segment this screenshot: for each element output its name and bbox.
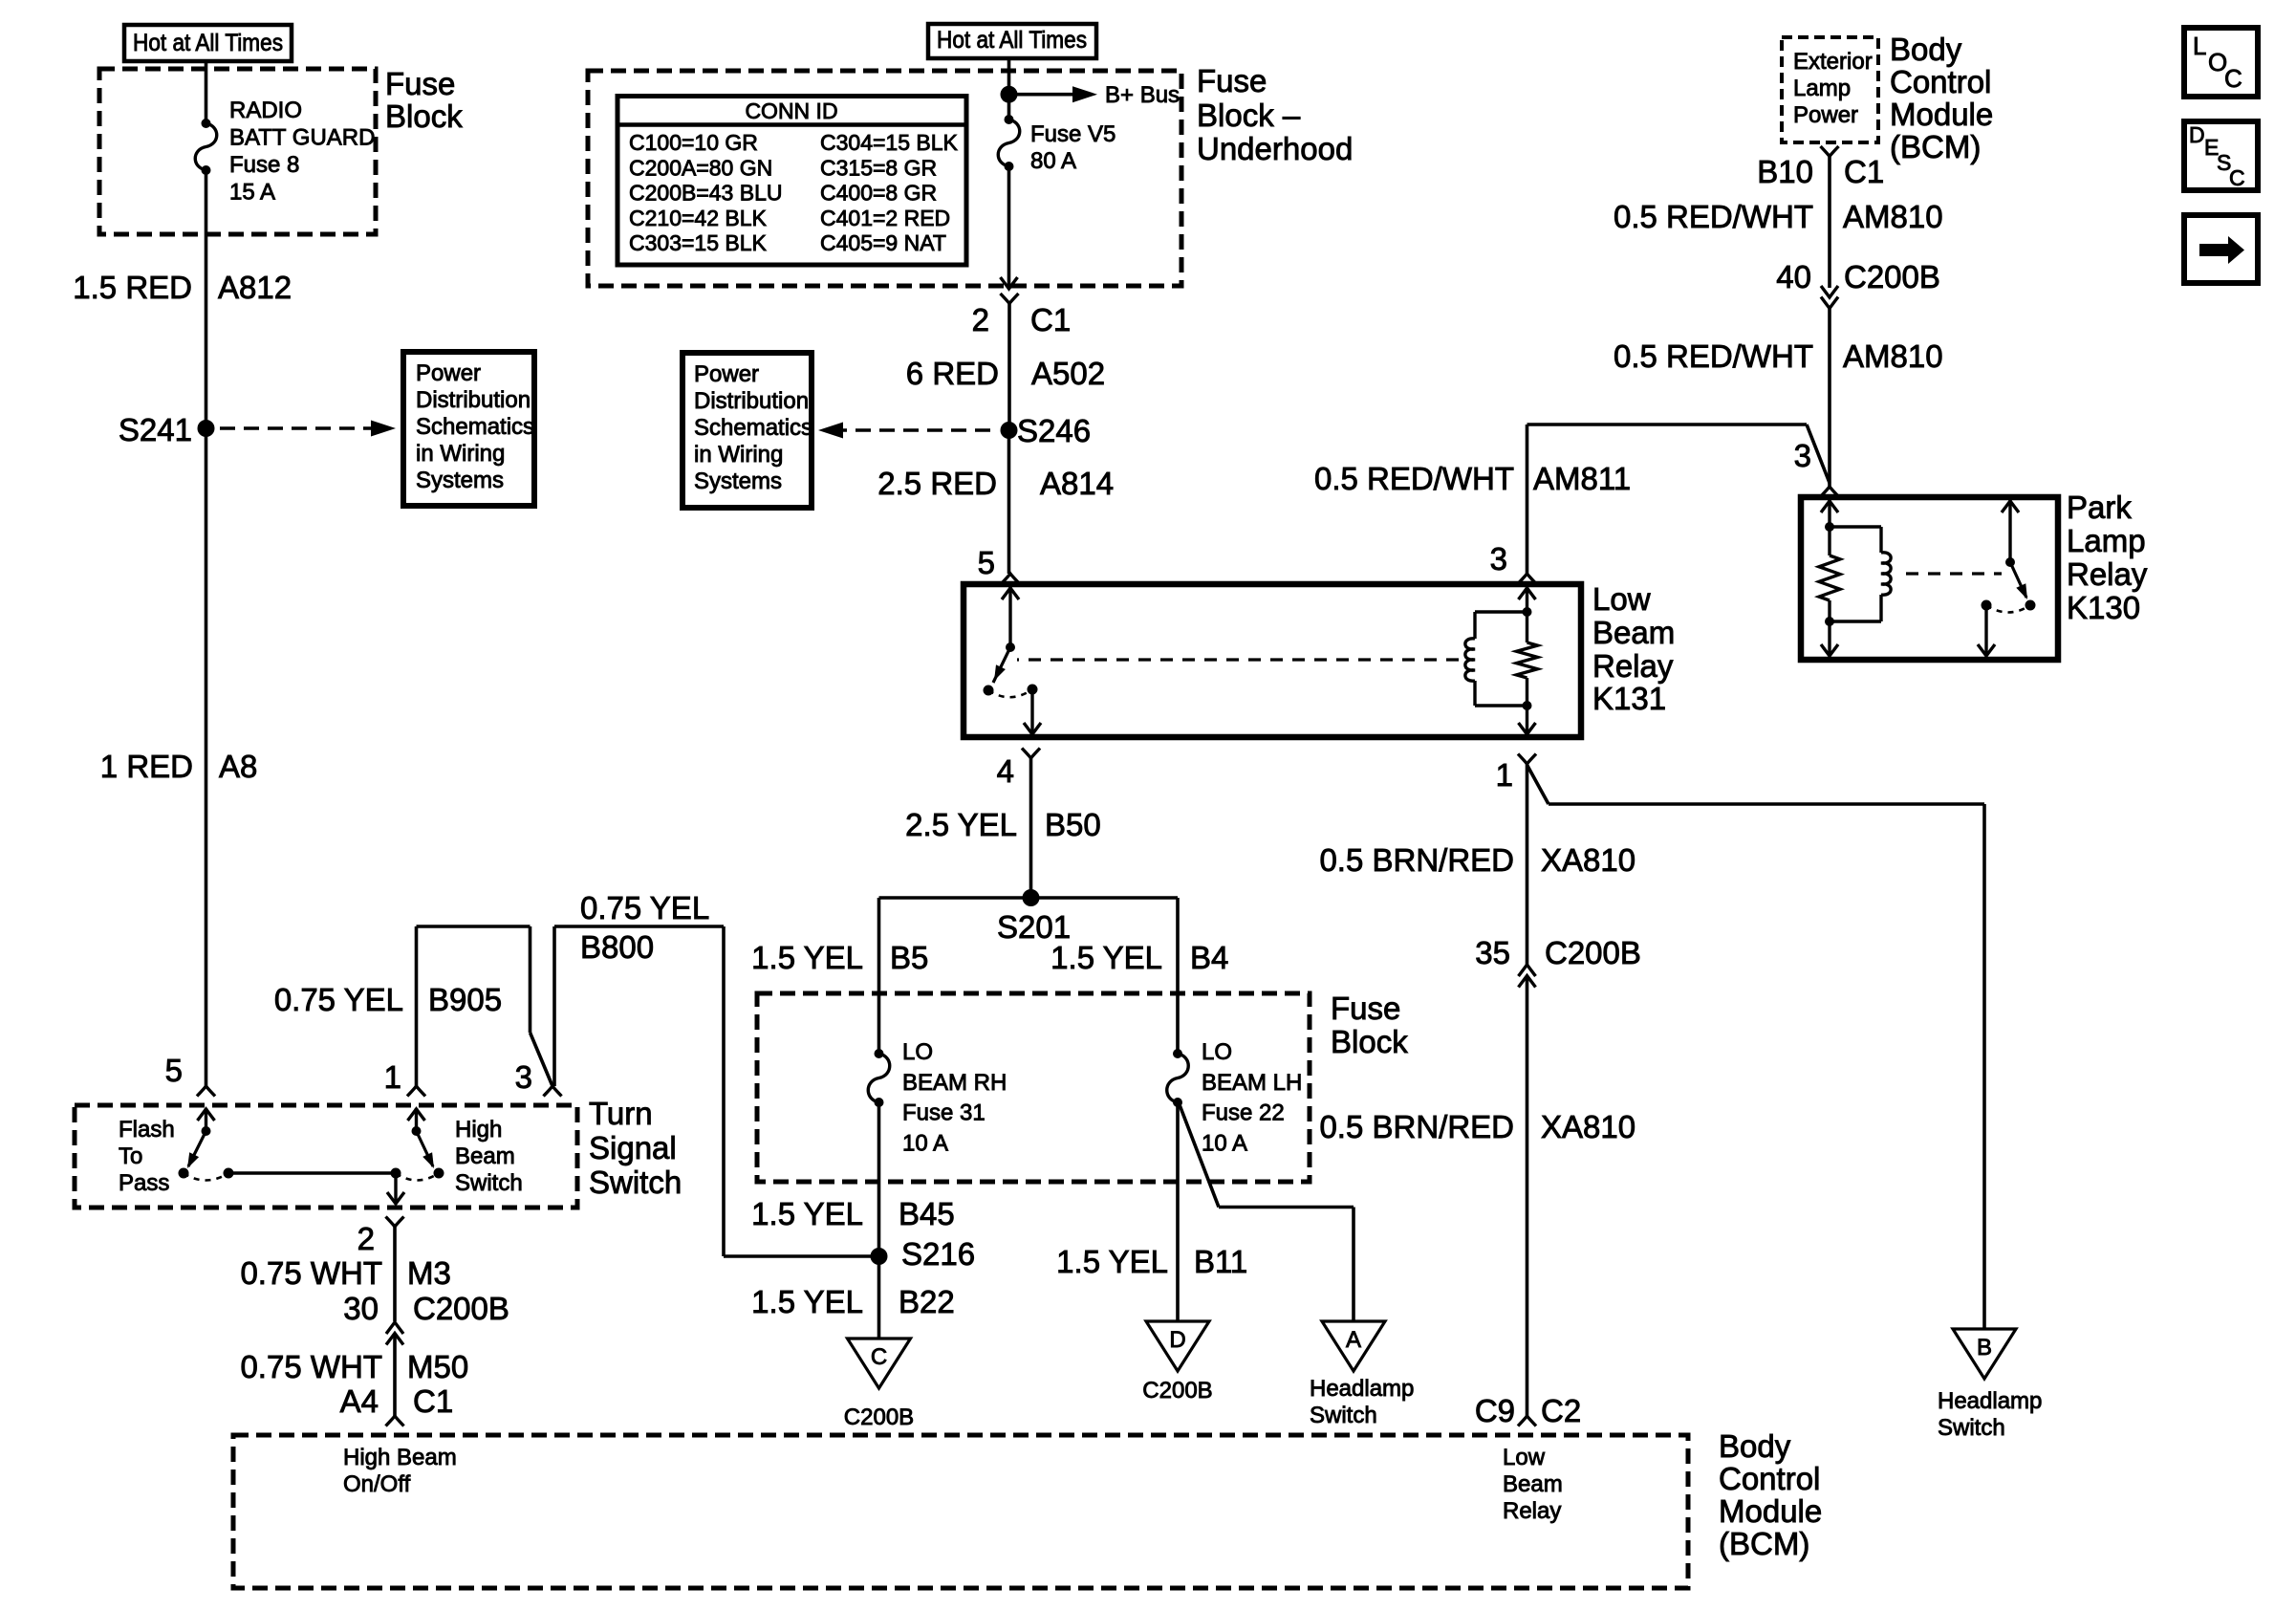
connector D to C200B bbox=[1146, 1321, 1209, 1371]
svg-text:in Wiring: in Wiring bbox=[416, 441, 505, 467]
dashed reference arrow S241 bbox=[220, 426, 375, 430]
svg-text:5: 5 bbox=[165, 1053, 183, 1088]
fuse block 1 dashed box bbox=[99, 69, 376, 234]
svg-text:3: 3 bbox=[515, 1059, 532, 1095]
TSS FTP arm bbox=[188, 1131, 206, 1166]
TSS link wire bbox=[228, 1171, 396, 1174]
svg-text:80 A: 80 A bbox=[1030, 148, 1076, 174]
svg-text:Headlamp: Headlamp bbox=[1938, 1388, 2042, 1414]
dashed reference arrow S246 bbox=[832, 428, 996, 432]
K130 switch pivot bbox=[2005, 557, 2015, 567]
exterior lamp power dashed box bbox=[1782, 37, 1878, 142]
wire AM810 lower bbox=[1828, 309, 1831, 488]
svg-text:C401=2 RED: C401=2 RED bbox=[820, 206, 950, 230]
BCM dashed box bbox=[233, 1435, 1688, 1588]
svg-text:S216: S216 bbox=[901, 1236, 975, 1272]
K131 resistor bbox=[1526, 612, 1528, 642]
svg-text:M3: M3 bbox=[407, 1255, 451, 1291]
svg-text:Relay: Relay bbox=[2067, 556, 2148, 592]
svg-text:Control: Control bbox=[1719, 1461, 1820, 1496]
K130 resistor bottom node bbox=[1825, 617, 1834, 626]
svg-text:Signal: Signal bbox=[589, 1130, 677, 1165]
svg-text:Systems: Systems bbox=[694, 468, 782, 494]
svg-text:C200A=80 GN: C200A=80 GN bbox=[629, 155, 772, 180]
wire to headlamp switch B bbox=[1527, 765, 1549, 804]
svg-text:Low: Low bbox=[1503, 1445, 1546, 1470]
svg-text:0.5 RED/WHT: 0.5 RED/WHT bbox=[1614, 338, 1813, 374]
connector K131 pin 3 bbox=[1518, 574, 1536, 584]
connector BCM B10 C1 bbox=[1821, 146, 1839, 157]
fuse LO BEAM RH bbox=[875, 1049, 884, 1058]
wire fuse 22 to headlamp switch A bbox=[1179, 1102, 1219, 1208]
svg-text:Switch: Switch bbox=[1310, 1403, 1377, 1428]
svg-text:On/Off: On/Off bbox=[343, 1471, 411, 1497]
svg-text:2: 2 bbox=[972, 302, 989, 337]
connector TSS pin 5 bbox=[197, 1086, 215, 1097]
svg-text:Distribution: Distribution bbox=[416, 387, 531, 413]
connector K130 pin 3 bbox=[1821, 487, 1839, 497]
K131 coil top node bbox=[1523, 607, 1532, 617]
TSS FTP pivot bbox=[202, 1126, 211, 1136]
svg-text:K131: K131 bbox=[1592, 681, 1666, 716]
wire A502 bbox=[1007, 304, 1011, 431]
svg-text:L: L bbox=[2193, 32, 2206, 60]
svg-text:C210=42 BLK: C210=42 BLK bbox=[629, 206, 768, 230]
svg-text:(BCM): (BCM) bbox=[1719, 1526, 1809, 1561]
TSS HBS arc bbox=[396, 1173, 439, 1181]
svg-text:Schematics: Schematics bbox=[416, 414, 534, 440]
svg-text:Body: Body bbox=[1890, 32, 1962, 67]
svg-text:0.5 RED/WHT: 0.5 RED/WHT bbox=[1314, 461, 1514, 496]
TSS high beam feed arrow bbox=[415, 1108, 418, 1131]
svg-text:B50: B50 bbox=[1045, 807, 1101, 842]
svg-text:0.75 YEL: 0.75 YEL bbox=[580, 890, 709, 925]
svg-text:D: D bbox=[1169, 1327, 1185, 1353]
svg-text:B11: B11 bbox=[1194, 1244, 1247, 1279]
svg-text:Fuse: Fuse bbox=[1331, 991, 1400, 1026]
svg-text:1.5 YEL: 1.5 YEL bbox=[751, 1284, 863, 1319]
fuse block underhood dashed box bbox=[588, 71, 1181, 286]
svg-text:1: 1 bbox=[384, 1059, 401, 1095]
wire hot feed to fuse block (x=215) bbox=[205, 61, 208, 123]
LOC reference box bbox=[2184, 28, 2258, 97]
hot at all times box 2 bbox=[928, 24, 1096, 58]
park lamp relay K130 box bbox=[1801, 497, 2058, 660]
wire AM810 upper bbox=[1828, 157, 1831, 289]
K131 coil dashed link bbox=[1017, 658, 1459, 661]
svg-text:Power: Power bbox=[694, 361, 759, 387]
connector BCM C9 bbox=[1518, 1416, 1536, 1426]
svg-text:1.5 YEL: 1.5 YEL bbox=[751, 940, 863, 975]
svg-text:B45: B45 bbox=[899, 1196, 955, 1231]
svg-text:Park: Park bbox=[2067, 490, 2132, 525]
svg-text:C304=15 BLK: C304=15 BLK bbox=[820, 130, 959, 155]
svg-text:Switch: Switch bbox=[589, 1165, 682, 1200]
svg-text:1 RED: 1 RED bbox=[100, 749, 193, 784]
fuse V5 80A bbox=[1005, 115, 1014, 124]
svg-text:1.5 YEL: 1.5 YEL bbox=[1056, 1244, 1168, 1279]
svg-text:6 RED: 6 RED bbox=[906, 356, 999, 391]
svg-text:Systems: Systems bbox=[416, 468, 504, 493]
K131 coil bottom node bbox=[1523, 701, 1532, 710]
svg-text:Lamp: Lamp bbox=[2067, 523, 2146, 558]
wire branch AM811 bbox=[1527, 423, 1808, 426]
svg-text:Block: Block bbox=[1331, 1024, 1408, 1059]
svg-text:C: C bbox=[2224, 64, 2242, 93]
svg-text:C200B: C200B bbox=[413, 1291, 509, 1326]
svg-text:Underhood: Underhood bbox=[1197, 131, 1353, 166]
svg-text:Block –: Block – bbox=[1197, 98, 1301, 133]
wire A8 segment bbox=[205, 428, 208, 1086]
svg-text:C200B: C200B bbox=[1545, 935, 1641, 970]
svg-text:B4: B4 bbox=[1190, 940, 1228, 975]
K131 switch arm bbox=[993, 647, 1010, 683]
low beam relay K131 box bbox=[964, 584, 1581, 737]
svg-text:35: 35 bbox=[1475, 935, 1510, 970]
connector K131 pin 5 bbox=[1002, 574, 1020, 584]
K130 resistor bbox=[1828, 527, 1830, 555]
svg-text:2.5 YEL: 2.5 YEL bbox=[905, 807, 1017, 842]
splice S241 bbox=[198, 420, 215, 437]
K131 switch pivot bbox=[1006, 642, 1015, 652]
svg-text:XA810: XA810 bbox=[1541, 842, 1635, 878]
wire B50 bbox=[1029, 758, 1033, 898]
svg-text:Exterior: Exterior bbox=[1793, 49, 1873, 75]
svg-text:C315=8 GR: C315=8 GR bbox=[820, 155, 937, 180]
forward arrow box bbox=[2184, 215, 2258, 283]
svg-text:Relay: Relay bbox=[1503, 1498, 1561, 1524]
svg-text:B5: B5 bbox=[890, 940, 928, 975]
svg-text:C: C bbox=[2229, 165, 2245, 190]
wire B22 bbox=[877, 1256, 881, 1339]
svg-text:C200B: C200B bbox=[1844, 259, 1940, 294]
K130 coil dashed link bbox=[1906, 572, 2002, 575]
svg-text:C1: C1 bbox=[413, 1383, 453, 1419]
K131 pin4 internal arrow bbox=[1030, 689, 1033, 734]
svg-text:0.75 WHT: 0.75 WHT bbox=[240, 1349, 382, 1384]
svg-text:Lamp: Lamp bbox=[1793, 76, 1851, 101]
K131 pin5 internal arrow bbox=[1008, 587, 1011, 647]
svg-text:3: 3 bbox=[1794, 438, 1811, 473]
connector C1 pin 2 bbox=[1001, 294, 1019, 304]
wire B905 loop bbox=[415, 926, 419, 1086]
wire B5 branch bbox=[877, 898, 881, 1054]
svg-text:Pass: Pass bbox=[119, 1170, 169, 1196]
svg-text:BATT GUARD: BATT GUARD bbox=[229, 125, 375, 151]
svg-text:Schematics: Schematics bbox=[694, 415, 812, 441]
svg-text:B800: B800 bbox=[580, 929, 654, 965]
svg-text:Distribution: Distribution bbox=[694, 388, 809, 414]
svg-text:1.5 RED: 1.5 RED bbox=[73, 270, 192, 305]
svg-text:C: C bbox=[871, 1344, 887, 1370]
svg-text:Beam: Beam bbox=[1592, 615, 1675, 650]
svg-text:4: 4 bbox=[997, 753, 1014, 789]
svg-text:Flash: Flash bbox=[119, 1117, 175, 1143]
svg-text:B: B bbox=[1977, 1335, 1992, 1361]
K131 switch contact bbox=[1028, 685, 1038, 695]
K131 switch arc bbox=[988, 689, 1032, 697]
svg-text:XA810: XA810 bbox=[1541, 1109, 1635, 1144]
svg-text:C303=15 BLK: C303=15 BLK bbox=[629, 230, 768, 255]
svg-text:To: To bbox=[119, 1143, 142, 1169]
svg-text:Fuse 22: Fuse 22 bbox=[1202, 1100, 1285, 1126]
svg-text:B905: B905 bbox=[428, 982, 502, 1017]
splice S201 bbox=[1023, 889, 1040, 906]
hot at all times box 1 bbox=[124, 25, 292, 61]
svg-text:LO: LO bbox=[902, 1039, 933, 1065]
svg-text:A814: A814 bbox=[1040, 466, 1114, 501]
wire A812 segment bbox=[205, 170, 208, 428]
power distribution schematics box 2 bbox=[682, 353, 812, 508]
wire A814 bbox=[1007, 430, 1011, 574]
wire XA810 lower bbox=[1526, 976, 1529, 1417]
connector C to C200B bbox=[848, 1339, 911, 1388]
K130 switch arc bbox=[1986, 605, 2030, 613]
DESC reference box bbox=[2184, 121, 2258, 190]
svg-text:Relay: Relay bbox=[1592, 648, 1674, 684]
connector BCM A4 bbox=[386, 1416, 404, 1426]
wire B45 bbox=[877, 1102, 881, 1256]
TSS HBS arm bbox=[417, 1131, 434, 1166]
svg-text:B22: B22 bbox=[899, 1284, 955, 1319]
svg-text:Headlamp: Headlamp bbox=[1310, 1376, 1414, 1402]
svg-text:Switch: Switch bbox=[455, 1170, 523, 1196]
svg-text:Module: Module bbox=[1719, 1493, 1822, 1529]
svg-text:C200B: C200B bbox=[1142, 1378, 1212, 1404]
K130 internal down arrow bbox=[1828, 621, 1830, 656]
connector TSS pin 1 bbox=[407, 1086, 425, 1097]
wire M50 bbox=[393, 1334, 397, 1417]
svg-text:Body: Body bbox=[1719, 1428, 1791, 1464]
wire B11 bbox=[1176, 1102, 1180, 1321]
svg-text:K130: K130 bbox=[2067, 590, 2140, 625]
splice S246 bbox=[1001, 422, 1018, 439]
wire B800 bbox=[552, 926, 556, 1086]
svg-text:High Beam: High Beam bbox=[343, 1445, 457, 1470]
svg-text:A8: A8 bbox=[219, 749, 257, 784]
svg-text:1.5 YEL: 1.5 YEL bbox=[1051, 940, 1162, 975]
conn id table bbox=[617, 97, 966, 266]
K130 switch contact bbox=[1982, 600, 1992, 611]
wire S201 crossbar bbox=[879, 896, 1179, 900]
TSS HBS common bbox=[391, 1168, 401, 1179]
svg-text:C400=8 GR: C400=8 GR bbox=[820, 181, 937, 206]
connector K131 pin 4 bbox=[1022, 749, 1040, 759]
svg-text:Fuse 8: Fuse 8 bbox=[229, 152, 299, 178]
node B+ branch bbox=[1001, 86, 1018, 103]
connector A headlamp switch bbox=[1322, 1321, 1385, 1371]
svg-text:C1: C1 bbox=[1030, 302, 1071, 337]
svg-text:Block: Block bbox=[385, 98, 463, 134]
TSS output down arrow bbox=[394, 1173, 397, 1204]
wire fuse V5 to box edge bbox=[1007, 166, 1011, 289]
K130 coil bbox=[1830, 525, 1881, 528]
svg-text:B+ Bus: B+ Bus bbox=[1105, 82, 1180, 108]
power distribution schematics box 1 bbox=[403, 352, 534, 506]
svg-text:3: 3 bbox=[1490, 541, 1507, 577]
svg-text:Fuse: Fuse bbox=[1197, 63, 1267, 98]
turn signal switch dashed box bbox=[75, 1105, 577, 1208]
svg-text:C200B=43 BLU: C200B=43 BLU bbox=[629, 181, 782, 206]
svg-text:AM810: AM810 bbox=[1843, 338, 1943, 374]
svg-text:0.75 WHT: 0.75 WHT bbox=[240, 1255, 382, 1291]
svg-text:0.5 RED/WHT: 0.5 RED/WHT bbox=[1614, 199, 1813, 234]
svg-text:Low: Low bbox=[1592, 581, 1651, 617]
TSS HBS pivot bbox=[412, 1126, 422, 1136]
connector TSS pin 2 bbox=[386, 1217, 404, 1228]
svg-text:C200B: C200B bbox=[844, 1404, 914, 1430]
svg-text:A502: A502 bbox=[1031, 356, 1105, 391]
svg-text:15 A: 15 A bbox=[229, 180, 275, 206]
svg-text:Turn: Turn bbox=[589, 1096, 653, 1131]
svg-text:D: D bbox=[2189, 122, 2205, 147]
svg-text:1: 1 bbox=[1496, 757, 1513, 793]
connector K131 pin 1 bbox=[1518, 754, 1536, 765]
svg-text:0.5 BRN/RED: 0.5 BRN/RED bbox=[1319, 1109, 1514, 1144]
wire XA810 upper bbox=[1526, 764, 1529, 965]
svg-text:10 A: 10 A bbox=[902, 1130, 948, 1156]
svg-text:2.5 RED: 2.5 RED bbox=[877, 466, 997, 501]
svg-text:A: A bbox=[1346, 1327, 1361, 1353]
svg-text:(BCM): (BCM) bbox=[1890, 129, 1981, 164]
svg-text:A4: A4 bbox=[340, 1383, 379, 1419]
svg-text:C9: C9 bbox=[1475, 1393, 1515, 1428]
wire hot2 down to B+ node bbox=[1007, 58, 1011, 120]
svg-text:0.75 YEL: 0.75 YEL bbox=[274, 982, 403, 1017]
svg-text:40: 40 bbox=[1776, 259, 1811, 294]
K130 pin2 internal arrow bbox=[1984, 605, 1987, 656]
svg-text:in Wiring: in Wiring bbox=[694, 442, 783, 468]
svg-text:AM810: AM810 bbox=[1843, 199, 1943, 234]
svg-text:S246: S246 bbox=[1017, 413, 1091, 448]
svg-text:5: 5 bbox=[978, 545, 995, 580]
svg-text:Hot at All Times: Hot at All Times bbox=[937, 27, 1087, 54]
svg-text:Fuse 31: Fuse 31 bbox=[902, 1100, 986, 1126]
splice S216 bbox=[871, 1248, 888, 1265]
svg-text:Switch: Switch bbox=[1938, 1415, 2005, 1441]
svg-text:C100=10 GR: C100=10 GR bbox=[629, 130, 758, 155]
svg-text:Beam: Beam bbox=[1503, 1471, 1563, 1497]
svg-text:Fuse: Fuse bbox=[385, 66, 455, 101]
K130 switch arm bbox=[2010, 562, 2026, 598]
wire B4 branch bbox=[1176, 898, 1180, 1054]
svg-text:C1: C1 bbox=[1844, 154, 1884, 189]
svg-text:BEAM RH: BEAM RH bbox=[902, 1070, 1007, 1096]
svg-text:A812: A812 bbox=[218, 270, 292, 305]
fuse block 2 dashed box bbox=[757, 993, 1310, 1182]
fuse LO BEAM LH bbox=[1173, 1049, 1182, 1058]
wire M3 bbox=[393, 1227, 397, 1321]
svg-text:High: High bbox=[455, 1117, 502, 1143]
svg-text:Power: Power bbox=[416, 360, 481, 386]
TSS FTP arc bbox=[184, 1173, 228, 1181]
svg-text:Hot at All Times: Hot at All Times bbox=[133, 30, 283, 56]
svg-text:Module: Module bbox=[1890, 97, 1993, 132]
connector TSS pin 3 bbox=[544, 1086, 562, 1097]
svg-text:1.5 YEL: 1.5 YEL bbox=[751, 1196, 863, 1231]
K130 resistor top node bbox=[1825, 522, 1834, 532]
svg-text:2: 2 bbox=[357, 1221, 375, 1256]
svg-text:Beam: Beam bbox=[455, 1143, 515, 1169]
svg-text:10 A: 10 A bbox=[1202, 1130, 1247, 1156]
svg-text:Control: Control bbox=[1890, 64, 1991, 99]
svg-text:CONN ID: CONN ID bbox=[745, 98, 837, 123]
svg-text:LO: LO bbox=[1202, 1039, 1232, 1065]
TSS FTP contact bbox=[224, 1168, 234, 1179]
svg-text:Power: Power bbox=[1793, 102, 1858, 128]
connector B headlamp switch bbox=[1953, 1329, 2016, 1379]
svg-text:RADIO: RADIO bbox=[229, 98, 302, 123]
svg-text:B10: B10 bbox=[1757, 154, 1813, 189]
TSS flash-to-pass feed arrow bbox=[205, 1108, 207, 1131]
svg-text:Fuse V5: Fuse V5 bbox=[1030, 121, 1116, 147]
K131 coil bbox=[1475, 610, 1527, 613]
K130 switch feed arrow bbox=[2008, 500, 2011, 562]
svg-text:C405=9 NAT: C405=9 NAT bbox=[820, 230, 946, 255]
svg-text:0.5 BRN/RED: 0.5 BRN/RED bbox=[1319, 842, 1514, 878]
svg-text:S241: S241 bbox=[119, 412, 192, 447]
K130 pin3 internal arrow bbox=[1828, 500, 1830, 527]
svg-text:BEAM LH: BEAM LH bbox=[1202, 1070, 1302, 1096]
svg-text:C2: C2 bbox=[1541, 1393, 1581, 1428]
svg-text:30: 30 bbox=[343, 1291, 379, 1326]
svg-text:M50: M50 bbox=[407, 1349, 468, 1384]
svg-text:AM811: AM811 bbox=[1533, 461, 1631, 496]
fuse RADIO BATT GUARD Fuse 8 bbox=[202, 119, 211, 128]
